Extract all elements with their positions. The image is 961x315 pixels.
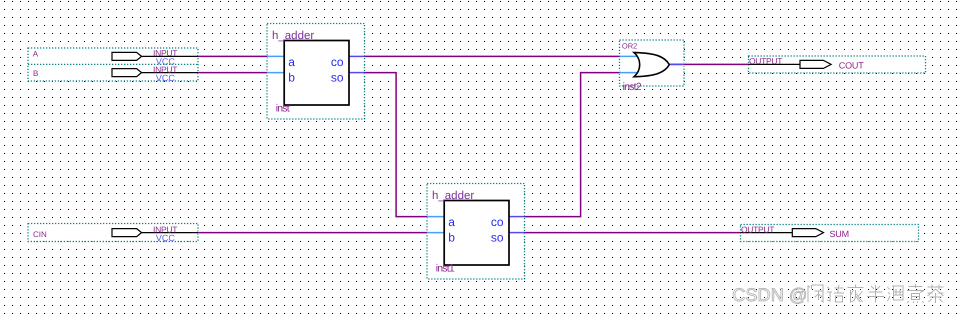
svg-text:so: so <box>331 71 344 85</box>
svg-text:b: b <box>448 231 455 245</box>
svg-text:SUM: SUM <box>830 229 849 239</box>
svg-text:VCC: VCC <box>156 73 176 83</box>
svg-text:so: so <box>491 231 504 245</box>
svg-text:CSDN @: CSDN @ <box>732 285 807 305</box>
svg-text:COUT: COUT <box>839 61 864 71</box>
svg-text:OUTPUT: OUTPUT <box>741 224 774 234</box>
svg-text:a: a <box>448 215 455 229</box>
svg-text:co: co <box>491 215 504 229</box>
svg-text:B: B <box>33 69 38 78</box>
svg-text:OR2: OR2 <box>622 41 637 50</box>
svg-text:CIN: CIN <box>33 230 47 239</box>
svg-text:OUTPUT: OUTPUT <box>749 56 782 66</box>
svg-text:b: b <box>288 71 295 85</box>
svg-text:VCC: VCC <box>156 233 176 243</box>
svg-text:inst2: inst2 <box>623 81 642 93</box>
svg-text:h_adder: h_adder <box>272 30 314 42</box>
svg-text:inst1: inst1 <box>436 263 455 275</box>
svg-text:inst: inst <box>276 103 290 115</box>
svg-text:co: co <box>331 55 344 69</box>
svg-text:h_adder: h_adder <box>432 190 474 202</box>
svg-text:a: a <box>288 55 295 69</box>
svg-text:A: A <box>33 49 39 58</box>
